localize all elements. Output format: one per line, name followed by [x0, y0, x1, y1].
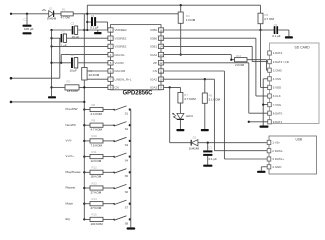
- svg-text:D2: D2: [193, 136, 197, 140]
- svg-text:3 DATA+: 3 DATA+: [272, 157, 284, 161]
- svg-text:V+/V+: V+/V+: [66, 154, 75, 158]
- svg-text:R9: R9: [92, 119, 96, 123]
- svg-text:13: 13: [159, 53, 163, 57]
- svg-text:1.DAT2: 1.DAT2: [273, 51, 283, 55]
- svg-text:2 DATA-: 2 DATA-: [272, 149, 283, 153]
- svg-text:22 KOM: 22 KOM: [89, 73, 100, 77]
- svg-text:S2: S2: [125, 127, 129, 131]
- svg-text:4.7 KOM: 4.7 KOM: [184, 97, 196, 101]
- svg-text:8.DAT0: 8.DAT0: [273, 111, 283, 115]
- svg-text:ZP: ZP: [153, 61, 157, 65]
- svg-text:VSSRE2: VSSRE2: [115, 45, 127, 49]
- svg-text:4.VSS: 4.VSS: [273, 77, 281, 81]
- svg-text:LINEIN_R+L: LINEIN_R+L: [115, 77, 132, 81]
- svg-text:C7: C7: [208, 146, 212, 150]
- svg-text:C4: C4: [71, 53, 75, 57]
- svg-text:0.1 µF: 0.1 µF: [209, 157, 217, 161]
- svg-text:GPD2856C: GPD2856C: [123, 91, 153, 97]
- svg-text:1 +5v: 1 +5v: [272, 141, 280, 145]
- svg-text:18 KOM: 18 KOM: [91, 175, 102, 179]
- svg-text:R13: R13: [92, 181, 98, 185]
- svg-text:R2: R2: [67, 80, 71, 84]
- svg-text:VCOM: VCOM: [115, 61, 125, 65]
- svg-text:C6: C6: [274, 23, 278, 27]
- svg-text:USB: USB: [296, 138, 303, 142]
- svg-text:D1: D1: [49, 7, 53, 11]
- svg-text:9.DAT1: 9.DAT1: [273, 120, 283, 124]
- svg-text:15: 15: [159, 36, 163, 40]
- svg-text:VDDRE2: VDDRE2: [115, 28, 128, 32]
- svg-text:R15: R15: [92, 213, 98, 217]
- svg-text:11: 11: [159, 69, 162, 73]
- svg-text:+5v: +5v: [42, 8, 47, 12]
- svg-text:IOB0: IOB0: [150, 28, 157, 32]
- svg-text:47 KOM: 47 KOM: [91, 206, 102, 210]
- svg-text:100 KOM: 100 KOM: [91, 222, 104, 226]
- svg-text:4.7 OM: 4.7 OM: [264, 17, 274, 21]
- svg-text:VSSRE2: VSSRE2: [115, 36, 127, 40]
- svg-text:SD CARD: SD CARD: [295, 45, 311, 49]
- svg-text:2 KOM: 2 KOM: [235, 63, 245, 67]
- svg-text:IOA2: IOA2: [150, 77, 157, 81]
- svg-text:1N4148: 1N4148: [189, 146, 200, 150]
- svg-text:2.4 KOM: 2.4 KOM: [91, 112, 103, 116]
- svg-text:C1: C1: [24, 18, 28, 22]
- svg-text:CN: CN: [153, 69, 157, 73]
- svg-text:IOB0: IOB0: [150, 36, 157, 40]
- svg-text:R1: R1: [62, 7, 66, 11]
- svg-text:R16: R16: [236, 54, 241, 58]
- svg-text:10: 10: [159, 77, 163, 81]
- svg-text:0.1 µF: 0.1 µF: [90, 26, 98, 30]
- svg-text:1 KOM: 1 KOM: [186, 18, 196, 22]
- svg-text:IOA2: IOA2: [150, 53, 157, 57]
- svg-text:10 µF: 10 µF: [70, 69, 78, 73]
- svg-text:R11: R11: [92, 150, 97, 154]
- svg-text:C2: C2: [61, 30, 65, 34]
- svg-text:5.VDD: 5.VDD: [273, 86, 282, 90]
- svg-text:IOB1: IOB1: [150, 45, 157, 49]
- svg-text:C3: C3: [71, 21, 75, 25]
- svg-text:Repeat: Repeat: [66, 186, 76, 190]
- svg-text:R14: R14: [92, 197, 98, 201]
- svg-text:EQ: EQ: [66, 217, 71, 221]
- svg-text:27 KOM: 27 KOM: [91, 190, 102, 194]
- svg-text:LED1: LED1: [186, 114, 194, 118]
- svg-text:DACOL: DACOL: [115, 53, 126, 57]
- svg-text:S4: S4: [125, 159, 129, 163]
- svg-text:0.1 µF: 0.1 µF: [272, 34, 280, 38]
- svg-text:R12: R12: [92, 166, 98, 170]
- svg-text:7.5 KOM: 7.5 KOM: [91, 143, 103, 147]
- svg-text:16: 16: [159, 28, 163, 32]
- svg-text:Mode: Mode: [66, 201, 74, 205]
- svg-text:18 KOM: 18 KOM: [67, 89, 78, 93]
- svg-text:CN: CN: [115, 86, 119, 90]
- svg-text:S7: S7: [125, 206, 129, 210]
- svg-text:S1: S1: [125, 111, 129, 115]
- svg-text:S3: S3: [125, 143, 129, 147]
- svg-text:R10: R10: [92, 134, 98, 138]
- svg-text:3.CMD: 3.CMD: [273, 68, 282, 72]
- svg-text:1N4148: 1N4148: [47, 16, 57, 20]
- svg-text:S5: S5: [125, 174, 129, 178]
- svg-text:IOA3: IOA3: [150, 86, 157, 90]
- svg-text:12 KOM: 12 KOM: [91, 159, 102, 163]
- svg-text:7.VSS: 7.VSS: [273, 103, 281, 107]
- svg-text:Next/FF: Next/FF: [66, 123, 77, 127]
- svg-text:4.7 OM: 4.7 OM: [61, 15, 71, 19]
- svg-text:100 µF: 100 µF: [24, 27, 34, 31]
- svg-text:4 GND: 4 GND: [272, 165, 282, 169]
- svg-text:S6: S6: [125, 190, 129, 194]
- svg-text:DACOR: DACOR: [115, 69, 127, 73]
- svg-text:12: 12: [159, 61, 163, 65]
- svg-text:V-/V-: V-/V-: [66, 139, 73, 143]
- svg-text:R8: R8: [92, 103, 96, 107]
- svg-text:S8: S8: [125, 221, 129, 225]
- svg-text:6.CLK: 6.CLK: [273, 94, 281, 98]
- svg-text:4.7 KOM: 4.7 KOM: [91, 128, 103, 132]
- svg-text:14: 14: [159, 45, 163, 49]
- svg-text:2.DAT3 / CD: 2.DAT3 / CD: [273, 60, 289, 64]
- svg-text:Play/Pause: Play/Pause: [66, 170, 82, 174]
- svg-text:Prev/RW: Prev/RW: [66, 107, 78, 111]
